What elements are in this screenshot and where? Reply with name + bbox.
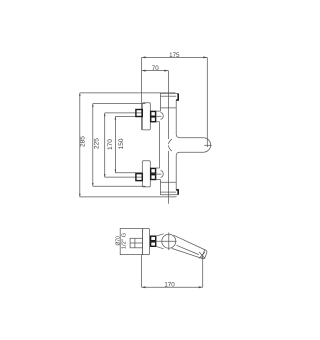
spout tip tick (204, 144, 212, 146)
bottom valve squares (151, 168, 156, 179)
side view cone lines (156, 234, 164, 249)
body left outline (156, 108, 160, 182)
side view axis cross (156, 232, 177, 250)
body bottom cap (161, 182, 179, 195)
bottom extension line left (141, 255, 143, 288)
extension line handle axis (141, 57, 143, 130)
side view aerator cross (199, 252, 205, 258)
bottom extension line right (202, 257, 204, 287)
dimension 170 vertical (104, 113, 142, 177)
svg-text:Ø70: Ø70 (115, 236, 121, 246)
spout junction fillets (176, 134, 179, 155)
dimension 70 line (142, 70, 169, 72)
bottom valve seat arc (161, 171, 164, 178)
side view spout face line (202, 250, 205, 259)
top valve axis tick (156, 115, 162, 117)
dimension 170 bottom line (142, 286, 203, 288)
spout saddle arcs (168, 139, 172, 151)
top valve squares (151, 111, 156, 121)
svg-text:170: 170 (107, 139, 114, 150)
top handle stem (136, 110, 142, 117)
dimension 285 vertical (79, 93, 177, 197)
svg-text:285: 285 (80, 136, 87, 147)
top handle knob (142, 103, 150, 130)
side view spout body (172, 235, 207, 259)
svg-text:175: 175 (169, 52, 180, 59)
side view wall plate (120, 229, 149, 255)
bottom valve axis tick (156, 173, 162, 175)
side view ball circle (162, 234, 176, 248)
bottom handle knob (142, 161, 150, 187)
side view spout reflection line (177, 245, 199, 254)
body right outline (175, 108, 177, 182)
svg-text:170: 170 (164, 282, 175, 289)
dimension 225 vertical (92, 104, 146, 187)
bottom mounting clip (176, 190, 178, 195)
side view inlet fitting (130, 238, 143, 248)
dimension 175 line (142, 56, 208, 58)
body top cap (161, 93, 179, 108)
extension line spout tip vertical (206, 57, 208, 147)
spout channel (180, 138, 204, 153)
svg-text:70: 70 (152, 65, 159, 72)
dimension 150 vertical (115, 116, 143, 172)
svg-text:1/2" G: 1/2" G (121, 232, 127, 249)
top mounting clip (176, 94, 178, 100)
spout end cap (203, 138, 210, 153)
svg-text:225: 225 (94, 138, 101, 149)
svg-text:150: 150 (118, 138, 125, 149)
body centerline (167, 71, 169, 204)
bottom handle stem (136, 174, 142, 181)
side view connector squares (151, 236, 156, 246)
top valve seat arc (161, 112, 164, 119)
